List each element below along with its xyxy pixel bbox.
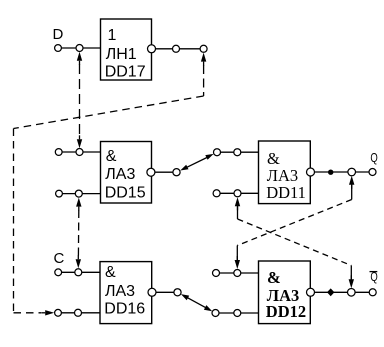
terminal DD16 lower input: [55, 309, 62, 316]
node Q junction: [348, 168, 356, 176]
node DD11 upper input junction: [234, 149, 241, 156]
overbar of Qbar label: [370, 271, 378, 273]
svg-text:ЛА3: ЛА3: [105, 283, 135, 300]
wire dashed diagonal DD17 feedback: [14, 96, 204, 129]
node DD16 output: [174, 289, 181, 296]
wire D input row: [58, 47, 101, 49]
svg-text:D: D: [53, 26, 64, 43]
wire DD11 output row Q: [315, 171, 373, 173]
node DD15 upper input junction: [76, 149, 83, 156]
inverter bubble DD17 output: [148, 45, 156, 53]
output terminal Q: [369, 169, 376, 176]
node Qbar junction: [348, 289, 356, 297]
svg-text:ЛН1: ЛН1: [106, 46, 137, 63]
terminal DD15 upper input: [55, 149, 62, 156]
node DD17 output b: [200, 45, 207, 52]
NAND gate DD16 box: [100, 262, 152, 324]
node DD16 lower input junction: [75, 309, 82, 316]
wire DD12 lower input: [216, 312, 259, 314]
svg-text:DD17: DD17: [105, 64, 146, 81]
node DD11 lower input junction: [234, 190, 241, 197]
wire DD16 lower input: [58, 312, 100, 314]
node DD12 lower input junction: [234, 310, 241, 317]
terminal DD12 upper input: [213, 270, 220, 277]
output terminal Qbar: [369, 289, 376, 296]
terminal DD12 lower input: [212, 310, 219, 317]
node DD15 lower input junction: [75, 190, 82, 197]
wire DD11 lower input: [217, 192, 259, 194]
node D junction: [76, 45, 83, 52]
input terminal D: [55, 45, 62, 52]
svg-text:&: &: [267, 268, 281, 287]
wire dashed diagonal Q to DD12 input: [237, 200, 351, 246]
node C junction: [75, 269, 82, 276]
inverter gate DD17 box: [101, 19, 152, 80]
terminal DD11 upper input: [214, 149, 221, 156]
wire vertical above Qbar junction: [350, 266, 352, 283]
wire C input row: [58, 271, 100, 273]
wire vertical below DD11 lower input: [237, 204, 239, 219]
svg-text:&: &: [106, 148, 117, 165]
svg-text:DD15: DD15: [105, 185, 146, 202]
double arrow DD16 output to DD12 input: [181, 294, 212, 311]
svg-text:C: C: [54, 250, 65, 267]
wire DD15 lower input: [59, 193, 101, 195]
wire DD11 upper input: [217, 151, 259, 153]
node DD15 output: [173, 169, 180, 176]
terminal DD15 lower input: [56, 190, 63, 197]
svg-text:DD11: DD11: [266, 183, 306, 202]
double arrow DD15 output to DD11 input: [180, 154, 213, 171]
wire DD15 upper input: [59, 151, 101, 153]
wire DD12 output row Qbar: [315, 291, 373, 293]
svg-text:&: &: [105, 264, 116, 281]
wire DD17 output row: [156, 48, 204, 50]
inverter bubble DD15 output: [147, 168, 155, 176]
input terminal C: [55, 269, 62, 276]
NAND gate DD12 box: [259, 261, 311, 324]
junction diamond on Qbar wire: [327, 288, 334, 296]
arrow up into Q junction: [349, 176, 354, 185]
wire DD15 output: [155, 171, 177, 173]
inverter bubble DD11 output: [307, 168, 315, 176]
terminal DD11 lower input: [213, 190, 220, 197]
arrow up into DD11 lower input junction: [235, 197, 240, 206]
arrow down into C junction: [76, 259, 81, 268]
wire dashed left vertical feedback: [13, 129, 15, 313]
wire DD12 upper input: [216, 272, 259, 274]
svg-text:1: 1: [108, 27, 117, 44]
NAND gate DD11 box: [259, 141, 311, 204]
wire dashed D to DD15 input: [79, 64, 81, 136]
junction dot on Q wire: [328, 170, 333, 175]
svg-text:ЛА3: ЛА3: [105, 166, 135, 183]
wire vertical below Q junction: [351, 182, 353, 200]
node DD12 upper input junction: [234, 270, 241, 277]
wire dashed bottom horizontal feedback: [14, 312, 42, 314]
wire DD16 output: [156, 291, 178, 293]
wire dashed vertical from DD17 output: [203, 65, 205, 96]
arrow down into Qbar junction: [349, 279, 354, 288]
arrow up into DD17 output node b: [201, 53, 206, 62]
arrow up into D junction: [77, 52, 82, 61]
wire vertical above DD12 upper input: [236, 246, 238, 262]
inverter bubble DD12 output: [307, 288, 315, 296]
arrow down into DD15 upper input junction: [77, 139, 82, 148]
svg-text:DD12: DD12: [266, 302, 306, 321]
wire dashed C to DD15 lower input: [77, 210, 79, 257]
arrow right into DD16 lower input terminal: [45, 310, 54, 315]
inverter bubble DD16 output: [148, 288, 156, 296]
node DD17 output a: [173, 45, 180, 52]
arrow down into DD12 upper input junction: [235, 260, 240, 269]
arrow up into DD15 lower input junction: [76, 198, 81, 207]
svg-text:Q: Q: [370, 151, 378, 165]
wire dashed diagonal Qbar to DD11 input: [238, 219, 352, 266]
NAND gate DD15 box: [101, 142, 152, 204]
svg-text:DD16: DD16: [104, 301, 145, 318]
